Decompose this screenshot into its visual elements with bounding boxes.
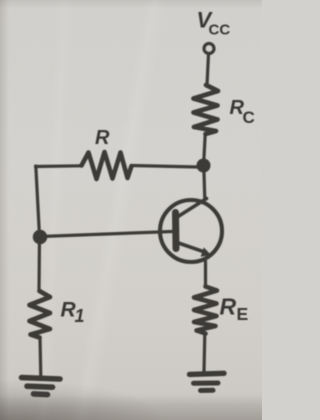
svg-text:1: 1: [75, 306, 85, 326]
wire VCC to RC: [207, 54, 209, 85]
resistor R1: [30, 291, 85, 338]
ground right: [190, 373, 225, 390]
resistor R: [82, 127, 132, 179]
resistor RE: [194, 287, 248, 334]
wire emitter to RE: [204, 262, 207, 288]
wire R1 to ground: [38, 338, 42, 378]
wire left vertical: [36, 166, 40, 291]
wire collector node to transistor: [204, 166, 205, 200]
svg-text:C: C: [243, 108, 255, 127]
wire top horizontal left segment: [36, 164, 82, 168]
wire R to collector node: [132, 166, 198, 168]
svg-text:CC: CC: [209, 22, 231, 39]
node collector junction: [197, 159, 211, 173]
ground left: [22, 378, 61, 395]
svg-text:R: R: [95, 127, 110, 149]
node base junction: [33, 230, 47, 244]
svg-text:R: R: [220, 294, 237, 320]
transistor Q1: [160, 199, 222, 263]
svg-text:E: E: [237, 304, 249, 324]
node VCC label: [197, 8, 231, 39]
wire base: [41, 232, 173, 237]
terminal VCC: [204, 44, 214, 54]
resistor RC: [194, 85, 255, 134]
wire RC to collector node: [204, 135, 205, 162]
wire RE to ground: [202, 334, 206, 373]
